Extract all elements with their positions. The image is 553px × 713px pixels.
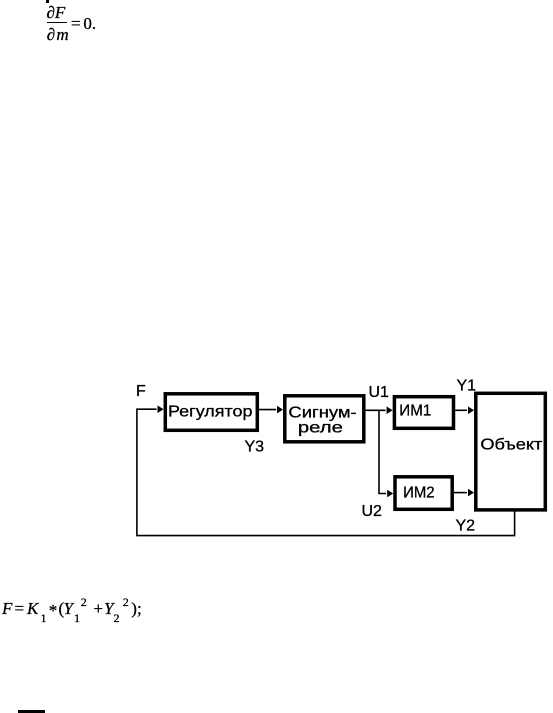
wire Signum-relay to IM1 xyxy=(366,407,393,415)
sub 1 xyxy=(41,612,47,624)
Y xyxy=(64,600,73,617)
svg-text:ИМ2: ИМ2 xyxy=(403,485,435,502)
); xyxy=(131,600,141,617)
wire IM1 to Object xyxy=(455,407,474,415)
fragment of character cut at top edge xyxy=(46,0,49,3)
sub 2 xyxy=(114,612,120,624)
branch wire junction down to IM2 input xyxy=(379,410,393,497)
fragment of overline cut at bottom edge xyxy=(18,710,45,713)
block IM2 xyxy=(395,477,452,510)
block Regulator xyxy=(165,394,257,431)
sub 1 xyxy=(74,612,80,624)
block Object xyxy=(476,393,546,510)
denominator dm xyxy=(47,26,70,43)
( xyxy=(59,600,65,617)
wire IM2 to Object xyxy=(454,489,474,497)
* xyxy=(49,602,58,619)
formula dF/dm = 0 : numerator dF xyxy=(47,4,66,21)
wire Regulator to Signum-relay xyxy=(259,406,283,414)
svg-text:Регулятор: Регулятор xyxy=(168,403,253,420)
+ xyxy=(94,600,104,617)
block Signum-relay xyxy=(285,396,364,442)
svg-text:U2: U2 xyxy=(362,503,383,520)
sup 2 xyxy=(81,596,87,608)
svg-text:ИМ1: ИМ1 xyxy=(399,402,431,419)
svg-text:реле: реле xyxy=(298,420,343,437)
formula F = K1*(Y1^2 + Y2^2); xyxy=(0,0,1,1)
= xyxy=(15,600,25,617)
svg-text:Y3: Y3 xyxy=(245,438,265,455)
svg-text:F: F xyxy=(136,383,146,400)
F xyxy=(2,600,12,617)
svg-text:U1: U1 xyxy=(369,384,390,401)
K xyxy=(27,600,38,617)
Y xyxy=(104,600,113,617)
feedback wire (object bottom, down, left, up to regulator input) xyxy=(137,405,515,535)
fraction bar xyxy=(47,22,67,24)
sup 2 xyxy=(123,596,129,608)
equals 0. xyxy=(71,15,96,32)
svg-text:Объект: Объект xyxy=(480,437,543,454)
svg-text:Y2: Y2 xyxy=(456,518,476,535)
svg-text:Y1: Y1 xyxy=(457,377,477,394)
block IM1 xyxy=(394,397,453,429)
